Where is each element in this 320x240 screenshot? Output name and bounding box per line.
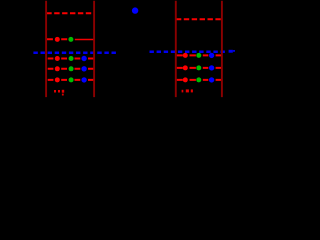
- left well label descender: [62, 94, 64, 96]
- quark green L3: [69, 56, 74, 61]
- left well right wall: [93, 1, 95, 97]
- quark blue L4: [81, 66, 86, 71]
- right well label mark 1: [182, 90, 184, 93]
- quark green R2: [196, 53, 201, 58]
- right well right wall: [221, 1, 223, 97]
- level R2 dashes: [177, 54, 222, 56]
- left well label mark 2: [58, 90, 60, 93]
- left well label mark 1: [54, 90, 56, 93]
- level L3 dashes: [48, 58, 94, 60]
- level L2 dashes: [47, 38, 67, 40]
- quark red L4: [55, 66, 60, 71]
- quark red L2: [55, 37, 60, 42]
- mu line right segment: [150, 51, 228, 54]
- quark red R3: [183, 65, 188, 70]
- quark red R2: [183, 53, 188, 58]
- left well label mark 3: [62, 90, 64, 93]
- quark blue L3: [81, 56, 86, 61]
- quark red L3: [55, 56, 60, 61]
- right well label mark 2: [186, 89, 189, 92]
- level R1 empty: [176, 18, 222, 20]
- right well label mark 3: [191, 89, 193, 92]
- right well left wall: [175, 1, 177, 97]
- quark red R4: [183, 77, 188, 82]
- left well left wall: [45, 1, 47, 97]
- quark blue L5: [81, 77, 86, 82]
- quark green L5: [69, 77, 74, 82]
- free blue quark: [132, 7, 138, 13]
- quark green L4: [69, 66, 74, 71]
- quark red L5: [55, 77, 60, 82]
- quark blue R4: [209, 77, 214, 82]
- quark green R3: [196, 65, 201, 70]
- level L1 empty: [46, 12, 94, 14]
- mu label: [229, 50, 233, 53]
- level L5 dashes: [48, 79, 94, 81]
- level R3 dashes: [177, 67, 222, 69]
- level R4 dashes: [177, 79, 222, 81]
- quark blue R3: [209, 65, 214, 70]
- quark green R4: [196, 77, 201, 82]
- level L4 dashes: [48, 68, 94, 70]
- quark blue R2: [209, 53, 214, 58]
- mu label tail: [233, 50, 235, 52]
- level L2 solid hole segment: [75, 39, 94, 41]
- quark green L2: [68, 37, 73, 42]
- mu line left segment: [33, 51, 117, 54]
